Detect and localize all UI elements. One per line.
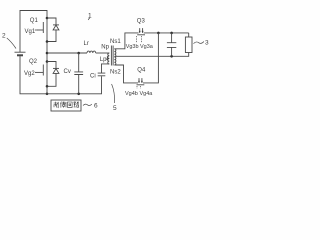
capacitor Co wire upper bbox=[171, 33, 173, 43]
svg-text:2: 2 bbox=[2, 33, 6, 40]
svg-text:Q1: Q1 bbox=[30, 18, 39, 24]
transistor Q1 gate lead bbox=[37, 29, 43, 31]
transformer core bbox=[111, 46, 113, 66]
node Q1 source bbox=[46, 40, 49, 43]
transformer secondary winding Ns1 Ns2 bbox=[114, 49, 116, 65]
svg-text:6: 6 bbox=[94, 103, 98, 110]
load resistor 3 riser top bbox=[188, 33, 190, 37]
svg-text:Ci: Ci bbox=[90, 74, 96, 80]
svg-text:Ns1: Ns1 bbox=[110, 39, 121, 45]
transistor Q4 ticks bbox=[139, 78, 142, 83]
capacitor Co plates bbox=[167, 43, 176, 48]
svg-text:Q4: Q4 bbox=[137, 67, 146, 73]
leader wavy to 3 bbox=[194, 41, 204, 43]
node output cap top bbox=[170, 32, 173, 35]
diode D2 body wiring bbox=[47, 62, 56, 69]
transistor Q2 gate lead bbox=[35, 71, 43, 73]
wire Q4 to riser bbox=[143, 33, 158, 83]
transformer primary winding Np bbox=[108, 53, 110, 64]
wire rail between Q1 and Q2 bbox=[46, 42, 48, 62]
wire mid node to Lr bbox=[47, 52, 87, 54]
wire secondary top lead to Q3 bbox=[114, 33, 138, 49]
diode D1 body wiring bbox=[47, 18, 56, 25]
voltage source 2 top plate bbox=[15, 51, 26, 53]
label Lp arrow bbox=[106, 56, 108, 60]
transistor Q2 channel bbox=[46, 62, 48, 87]
node output cap bottom bbox=[170, 55, 173, 58]
svg-text:Vg3b: Vg3b bbox=[126, 44, 139, 50]
capacitor Co wire lower bbox=[171, 47, 173, 56]
wire Q3 to output node bbox=[144, 32, 189, 34]
wire Lr to primary bbox=[96, 52, 110, 54]
kanji 路 bbox=[74, 102, 79, 108]
capacitor Cv plates bbox=[74, 72, 83, 75]
voltage source 2 bottom plate bbox=[17, 54, 23, 56]
svg-text:Ns2: Ns2 bbox=[110, 70, 121, 76]
label control circuit text 制御回路 drawn bbox=[54, 102, 79, 108]
node Q1 drain bbox=[46, 17, 49, 20]
svg-text:3: 3 bbox=[205, 40, 209, 47]
diode D2 cathode bar bbox=[53, 67, 59, 69]
leader 5 curve bbox=[112, 84, 115, 103]
wire bottom rail to Ci bbox=[47, 76, 102, 94]
leader 1 tick bbox=[88, 18, 90, 20]
svg-text:Cv: Cv bbox=[64, 69, 71, 75]
gate dashes Vg4 bbox=[137, 86, 141, 89]
node Q4 riser top bbox=[157, 32, 160, 35]
svg-text:5: 5 bbox=[113, 105, 117, 112]
transistor Q1 gate bar bbox=[42, 22, 44, 33]
node mid to Lr bbox=[46, 52, 49, 55]
svg-text:Q3: Q3 bbox=[137, 19, 146, 25]
svg-text:1: 1 bbox=[88, 12, 92, 19]
transistor Q3 arrowheads bbox=[139, 31, 144, 33]
transistor Q3 gate bar bbox=[137, 34, 145, 36]
kanji 御 bbox=[60, 102, 66, 108]
svg-text:Vg3a: Vg3a bbox=[140, 44, 154, 50]
capacitor Ci plates bbox=[98, 73, 106, 76]
kanji 回 bbox=[68, 102, 73, 107]
node Cv bottom bbox=[77, 93, 80, 96]
capacitor Cv wire lower bbox=[78, 75, 80, 94]
transistor Q4 arrowheads bbox=[138, 81, 143, 83]
transistor Q4 gate bar bbox=[137, 84, 145, 86]
leader 2 curve bbox=[7, 38, 16, 49]
wire top-left loop bbox=[20, 11, 47, 53]
wire secondary bottom lead to Q4 bbox=[114, 65, 138, 83]
gate dashes Vg3 bbox=[137, 36, 142, 43]
svg-text:Lp: Lp bbox=[100, 57, 107, 63]
svg-text:Lr: Lr bbox=[84, 41, 89, 47]
wire primary bottom to Ci bbox=[102, 64, 110, 73]
node bottom rail bbox=[46, 93, 49, 96]
transistor Q1 channel bbox=[46, 18, 48, 42]
wire source negative down bbox=[20, 56, 47, 94]
node Cv top bbox=[77, 52, 80, 55]
node Q2 drain bbox=[46, 60, 49, 63]
diode D1 cathode bar bbox=[53, 24, 59, 26]
transistor Q3 ticks bbox=[140, 28, 143, 33]
svg-text:Q2: Q2 bbox=[29, 59, 38, 65]
kanji 制 bbox=[54, 102, 59, 108]
wire D2 anode to source node bbox=[47, 73, 56, 86]
control circuit box 6 bbox=[51, 100, 81, 111]
diode D1 triangle bbox=[53, 25, 59, 30]
load resistor 3 box bbox=[185, 37, 192, 53]
svg-text:Vg4a: Vg4a bbox=[140, 91, 154, 97]
label Vg1 lead dash bbox=[35, 29, 38, 31]
wire Q2 source to bottom rail bbox=[46, 86, 48, 94]
svg-text:Np: Np bbox=[101, 45, 109, 51]
capacitor Cv wire upper bbox=[78, 53, 80, 72]
wire center tap output return rail bbox=[114, 53, 188, 57]
svg-text:Vg4b: Vg4b bbox=[125, 91, 138, 97]
svg-text:Vg1: Vg1 bbox=[25, 29, 36, 35]
transistor Q2 gate bar bbox=[42, 65, 44, 76]
diode D2 triangle bbox=[53, 69, 59, 74]
svg-text:Vg2: Vg2 bbox=[24, 71, 35, 77]
leader wavy to 6 bbox=[83, 104, 92, 105]
node Q2 source bbox=[46, 85, 49, 88]
wire D1 anode to source node bbox=[47, 30, 56, 42]
inductor Lr coil bbox=[87, 51, 96, 53]
